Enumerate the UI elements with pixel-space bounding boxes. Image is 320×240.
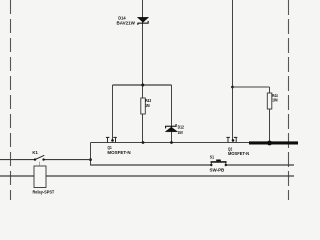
svg-text:15V: 15V: [178, 130, 184, 135]
wire: branch y=87 to R44: [233, 87, 270, 142]
right boundary dashed line: [288, 0, 290, 200]
svg-text:MOSFET-N: MOSFET-N: [228, 151, 250, 156]
svg-text:S1: S1: [210, 155, 215, 160]
label Q2 MOSFET-N: [228, 147, 250, 157]
node junction D12 bottom (171.5,142.5): [170, 141, 173, 144]
label R43 1M: [145, 98, 151, 108]
zener diode D12: [165, 124, 178, 132]
label R44 10M: [272, 93, 278, 103]
mechanical link relay: [39, 162, 41, 166]
resistor R43: [141, 98, 146, 114]
node junction at (232.5,87): [231, 86, 234, 89]
svg-text:Relay-SPST: Relay-SPST: [33, 190, 55, 195]
wire: left drop x=90 connecting rail to relay/switch rows: [90, 143, 92, 166]
label S1 SW-PB: [210, 155, 225, 173]
svg-text:10M: 10M: [272, 98, 278, 103]
svg-text:K1: K1: [32, 150, 38, 155]
wire: gate rail y=85 from Q1 gate drop to zener branch: [113, 84, 172, 86]
left boundary dashed line: [10, 0, 12, 200]
svg-text:BAV21W: BAV21W: [117, 21, 136, 26]
node junction at (90,159.7): [89, 158, 92, 161]
transistor Q1: [106, 137, 117, 143]
transistor Q2: [226, 137, 237, 143]
wire: vertical from top edge to Q2 gate: [232, 0, 234, 141]
wire: switch row y=165: [91, 164, 295, 166]
svg-text:D12: D12: [178, 125, 185, 130]
switch S1 SW-PB: [210, 160, 227, 167]
node junction R43 bottom (143,142.5): [142, 141, 145, 144]
wire: bottom rail y=176: [0, 175, 294, 177]
wire: relay contact row y=159.7: [0, 159, 91, 161]
wire: zener branch drop x=171.5: [171, 85, 173, 143]
relay contact K1: [34, 155, 45, 161]
wire: main source/drain rail y=142.5: [91, 142, 250, 144]
label K1: [32, 150, 38, 155]
diode D14: [137, 17, 148, 25]
label D12 15V: [178, 125, 185, 136]
label Q1 MOSFET-N: [107, 145, 131, 155]
label D14 BAV21W: [117, 16, 136, 26]
svg-text:MOSFET-N: MOSFET-N: [107, 150, 131, 155]
node junction at (143,85): [141, 84, 144, 87]
node junction R44 on bus (269.5,143): [267, 141, 272, 146]
resistor R44: [267, 93, 272, 109]
wire: vertical from top edge through D14 and R43 to bottom rail: [142, 0, 144, 143]
svg-text:SW-PB: SW-PB: [210, 168, 225, 173]
relay coil K1 Relay-SPST: [34, 166, 46, 188]
wire: Q1 gate drop x=112.5: [112, 85, 114, 141]
label Relay-SPST: [33, 190, 55, 195]
bus: thick output line: [249, 141, 298, 144]
svg-text:1M: 1M: [145, 103, 150, 108]
